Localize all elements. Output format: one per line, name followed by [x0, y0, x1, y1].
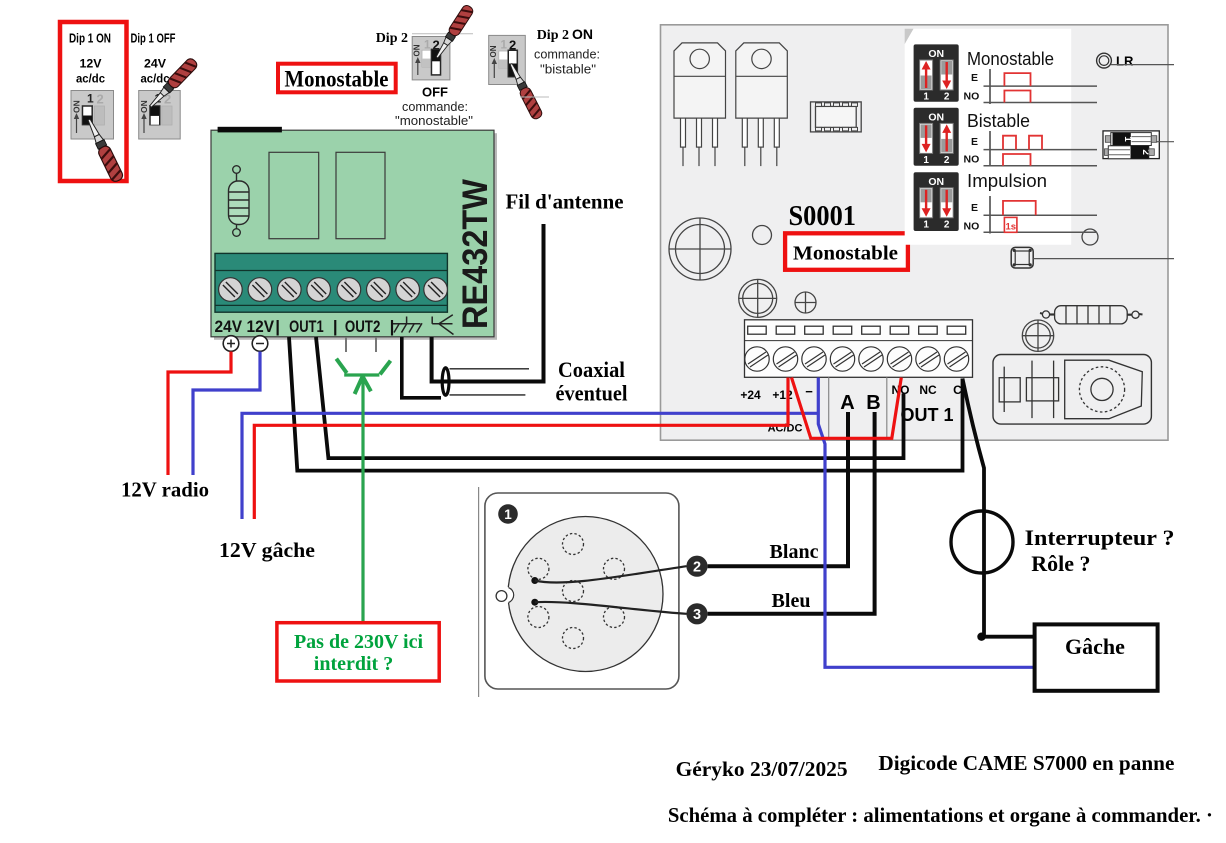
- svg-text:12V radio: 12V radio: [121, 478, 209, 502]
- svg-text:ac/dc: ac/dc: [141, 72, 170, 86]
- svg-text:ON: ON: [572, 26, 593, 42]
- led LR: [1097, 53, 1112, 68]
- svg-text:−: −: [805, 384, 813, 399]
- svg-text:ON: ON: [928, 176, 944, 188]
- wire blue minus to 12V radio: [193, 352, 260, 476]
- screw terminals on pcb: [219, 278, 448, 302]
- svg-text:3: 3: [693, 607, 701, 623]
- waveform impulsion: [964, 196, 1098, 234]
- transistor Q1: [674, 43, 726, 166]
- coax cable thin lines: [450, 368, 530, 370]
- svg-text:Blanc: Blanc: [770, 541, 819, 563]
- svg-text:Monostable: Monostable: [285, 67, 389, 93]
- pin dot lower: [531, 599, 538, 606]
- dip switch Dip2 ON: [489, 35, 526, 84]
- svg-text:1: 1: [424, 40, 431, 52]
- socket face circle: [508, 517, 663, 672]
- antenna symbol on pcb: [432, 315, 453, 335]
- receiver RE432TW pcb: [214, 133, 497, 340]
- svg-text:Interrupteur ?: Interrupteur ?: [1025, 525, 1175, 550]
- wire black out1-a to C: [289, 337, 963, 471]
- svg-text:"monostable": "monostable": [395, 114, 473, 128]
- svg-text:Bleu: Bleu: [772, 590, 811, 612]
- page edge line: [478, 487, 480, 697]
- mounting hole lower right: [1022, 320, 1053, 351]
- pin dot upper: [531, 577, 538, 584]
- svg-text:2: 2: [97, 92, 104, 107]
- svg-text:Coaxial: Coaxial: [558, 357, 625, 382]
- badge 2: [686, 556, 707, 577]
- screwdriver on Dip2 OFF: [432, 4, 474, 61]
- relay block outline: [993, 355, 1151, 425]
- wire black B to Bleu: [708, 412, 875, 614]
- dip switch Dip2 OFF: [412, 37, 450, 80]
- svg-text:1: 1: [1122, 136, 1133, 142]
- svg-text:LR: LR: [1116, 54, 1134, 69]
- notch: [499, 587, 515, 603]
- hole small: [753, 226, 772, 245]
- svg-text:1: 1: [501, 40, 508, 52]
- svg-text:|: |: [275, 317, 280, 336]
- ground symbol on pcb: [393, 317, 422, 333]
- coax loop: [442, 368, 449, 396]
- svg-text:OUT1: OUT1: [289, 317, 324, 336]
- svg-text:NO: NO: [964, 154, 980, 166]
- svg-text:24V: 24V: [215, 317, 243, 336]
- relay K2 on pcb: [336, 152, 385, 238]
- wire black A to Blanc: [708, 412, 848, 566]
- svg-text:Dip 2: Dip 2: [376, 31, 408, 46]
- red box Monostable (board): [785, 233, 908, 269]
- socket pins dashed: [528, 534, 625, 649]
- svg-text:E: E: [971, 136, 978, 148]
- antenna bar on pcb top: [218, 127, 282, 133]
- svg-text:ON: ON: [928, 111, 944, 123]
- wire slots: [748, 326, 966, 334]
- dip switch Dip1 OFF: [139, 91, 181, 140]
- red box pas de 230V: [277, 623, 439, 681]
- svg-text:1: 1: [923, 220, 929, 231]
- svg-text:Rôle ?: Rôle ?: [1031, 551, 1090, 576]
- wire black out1-b to NO: [316, 337, 904, 458]
- svg-text:12V: 12V: [247, 317, 275, 336]
- trimmer square: [1011, 247, 1033, 268]
- wire red strap +12 to NO: [792, 378, 902, 439]
- svg-text:2: 2: [693, 559, 701, 575]
- svg-text:OFF: OFF: [422, 85, 448, 100]
- screwdriver on Dip2 ON: [506, 61, 543, 120]
- svg-text:Dip 2: Dip 2: [537, 28, 569, 43]
- svg-text:ON: ON: [928, 48, 944, 60]
- svg-text:1: 1: [87, 92, 94, 106]
- inset white panel: [905, 29, 1071, 245]
- svg-text:Monostable: Monostable: [793, 243, 898, 265]
- svg-text:+12: +12: [772, 388, 793, 402]
- svg-text:OUT2: OUT2: [345, 317, 381, 336]
- svg-text:Fil d'antenne: Fil d'antenne: [506, 190, 624, 214]
- svg-text:Bistable: Bistable: [967, 110, 1030, 131]
- svg-text:|: |: [333, 317, 338, 336]
- svg-text:Gâche: Gâche: [1065, 634, 1125, 659]
- svg-text:Monostable: Monostable: [967, 48, 1054, 69]
- mounting hole big: [669, 218, 731, 280]
- svg-text:E: E: [971, 202, 978, 214]
- socket panel frame: [485, 493, 679, 689]
- svg-text:Géryko 23/07/2025: Géryko 23/07/2025: [676, 757, 848, 781]
- crystal element 1: [999, 367, 1020, 412]
- ic U1: [811, 102, 862, 132]
- callout line fuse: [1156, 141, 1174, 143]
- waveform bistable: [964, 131, 1098, 167]
- svg-text:Dip 1 OFF: Dip 1 OFF: [131, 31, 176, 46]
- red frame Dip1 ON: [60, 22, 127, 181]
- relay K1 on pcb: [269, 152, 319, 238]
- svg-text:2: 2: [944, 92, 950, 103]
- svg-text:"bistable": "bistable": [540, 63, 596, 77]
- svg-text:12V: 12V: [80, 57, 102, 71]
- svg-text:|: |: [390, 317, 395, 336]
- wire black C to interrupteur to Gache: [963, 379, 1035, 637]
- resistor horizontal: [1040, 306, 1143, 324]
- svg-text:Dip 1 ON: Dip 1 ON: [69, 31, 111, 46]
- svg-text:+24: +24: [740, 388, 761, 402]
- svg-text:ON: ON: [489, 45, 498, 57]
- svg-text:NO: NO: [964, 91, 980, 103]
- red box Monostable (left): [278, 64, 396, 93]
- terminal strip S0001: [745, 320, 973, 378]
- screwdriver on Dip1 OFF: [146, 57, 199, 111]
- svg-text:NO: NO: [964, 221, 980, 233]
- svg-text:1s: 1s: [1006, 222, 1017, 233]
- callout line LR: [1111, 64, 1174, 66]
- svg-text:RE432TW: RE432TW: [456, 179, 495, 329]
- svg-text:ON: ON: [72, 100, 82, 113]
- terminal block on pcb: [215, 253, 447, 312]
- wire blue minus S0001 to Gache: [818, 378, 1034, 668]
- junction dot: [977, 633, 985, 641]
- transistor Q2: [736, 43, 788, 166]
- screw terminals S0001: [745, 347, 969, 371]
- out2 stub pins: [345, 337, 347, 352]
- dip switch Dip1 ON: [71, 91, 114, 140]
- gray dash near dip2 on handle: [520, 96, 549, 98]
- svg-text:A: A: [840, 392, 854, 414]
- leader wire to 2: [535, 566, 687, 582]
- svg-text:B: B: [866, 392, 880, 414]
- minus terminal: [252, 336, 268, 352]
- thin rule above dip2 off: [412, 33, 473, 35]
- wire blue 12V gache branch: [242, 413, 818, 519]
- dip block monostable: [914, 44, 959, 102]
- leader wire to 3: [535, 602, 687, 614]
- svg-text:éventuel: éventuel: [556, 381, 628, 406]
- fuse holder: [1103, 131, 1159, 159]
- svg-text:24V: 24V: [144, 57, 166, 71]
- board S0001 outline: [661, 25, 1169, 440]
- svg-text:12V gâche: 12V gâche: [219, 538, 315, 562]
- svg-text:Pas de 230V ici: Pas de 230V ici: [294, 631, 424, 653]
- wire black antenna terminal to Fil d'antenne: [432, 224, 544, 382]
- svg-text:2: 2: [944, 155, 950, 166]
- svg-text:ON: ON: [139, 100, 149, 113]
- screw head small: [795, 292, 816, 313]
- svg-text:commande:: commande:: [402, 100, 468, 114]
- svg-text:interdit ?: interdit ?: [314, 653, 393, 675]
- badge 1: [498, 504, 518, 524]
- dip block impulsion: [914, 172, 959, 231]
- svg-text:ac/dc: ac/dc: [76, 72, 105, 86]
- waveform monostable: [964, 69, 1098, 104]
- wire black ground to coax: [402, 337, 441, 398]
- svg-text:Schéma à compléter : alimentat: Schéma à compléter : alimentations et or…: [668, 803, 1213, 827]
- dip block bistable: [914, 108, 959, 166]
- svg-text:2: 2: [944, 220, 950, 231]
- svg-text:S0001: S0001: [789, 201, 857, 232]
- callout line trimmer: [1033, 258, 1174, 260]
- svg-text:1: 1: [504, 507, 512, 522]
- label Gache box: [1035, 624, 1158, 690]
- screwdriver on Dip1 ON: [83, 117, 124, 183]
- svg-text:1: 1: [923, 155, 929, 166]
- green antenna arrow symbol: [336, 359, 390, 623]
- svg-text:1: 1: [923, 92, 929, 103]
- hole right of inset: [1082, 229, 1098, 245]
- resistor R1 on pcb: [229, 166, 250, 237]
- svg-text:Digicode CAME S7000 en panne: Digicode CAME S7000 en panne: [878, 751, 1174, 775]
- svg-text:OUT 1: OUT 1: [900, 405, 953, 425]
- cable gland pentagon: [1065, 360, 1143, 419]
- plus terminal: [223, 336, 239, 352]
- mounting hole mid: [739, 279, 777, 317]
- svg-text:ON: ON: [413, 44, 422, 56]
- cell dividers: [828, 377, 830, 438]
- interrupteur circle: [951, 511, 1013, 573]
- wire red +12 to 12V gache: [254, 378, 788, 520]
- svg-text:commande:: commande:: [534, 48, 600, 62]
- svg-text:NC: NC: [919, 383, 937, 397]
- svg-text:E: E: [971, 72, 978, 84]
- crystal element 2: [1026, 361, 1058, 419]
- badge 3: [686, 603, 707, 624]
- wire red plus to 12V radio: [168, 352, 231, 476]
- svg-text:Impulsion: Impulsion: [967, 170, 1047, 191]
